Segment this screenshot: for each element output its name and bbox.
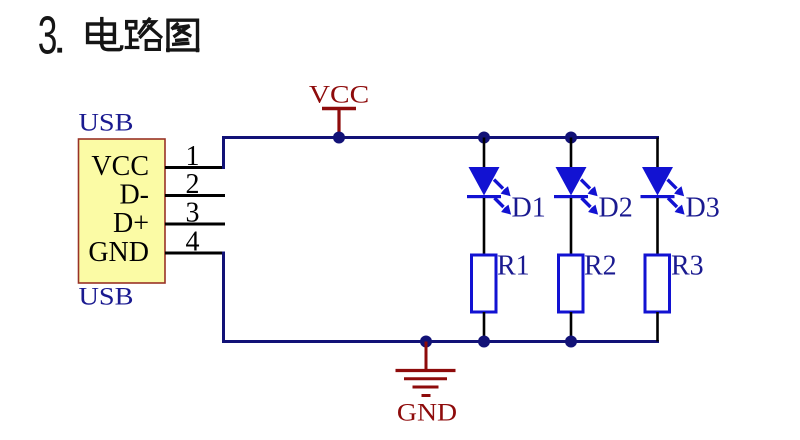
wire R3 to GND rail — [656, 312, 659, 342]
svg-text:D+: D+ — [113, 208, 149, 239]
label USB (top) — [79, 108, 134, 136]
label R1 — [497, 251, 530, 282]
label D3 — [686, 193, 720, 224]
net label VCC — [309, 80, 369, 108]
svg-text:D1: D1 — [512, 193, 546, 224]
wire D1 anode lead — [483, 138, 486, 168]
junction dot R1 bottom — [478, 336, 490, 348]
resistor R3 — [645, 255, 670, 312]
connector J1 USB body — [79, 139, 166, 283]
pin 3 lead wire — [165, 223, 225, 226]
wire pin4 drop to GND rail — [222, 252, 225, 342]
wire D3 anode lead — [656, 138, 659, 168]
ground symbol GND — [396, 342, 456, 396]
label R3 — [671, 251, 704, 282]
svg-text:D3: D3 — [686, 193, 720, 224]
svg-text:1: 1 — [186, 141, 200, 172]
svg-text:USB: USB — [79, 282, 134, 310]
wire D3 cathode to R3 — [656, 198, 659, 256]
pin 2 number — [186, 169, 200, 200]
label D1 — [512, 193, 546, 224]
svg-text:4: 4 — [186, 227, 200, 258]
svg-text:D2: D2 — [599, 193, 633, 224]
wire D2 anode lead — [570, 138, 573, 168]
wire R1 to GND rail — [483, 312, 486, 342]
svg-text:USB: USB — [79, 108, 134, 136]
resistor R1 — [472, 255, 497, 312]
resistor R2 — [559, 255, 584, 312]
LED D3 — [641, 167, 685, 215]
svg-text:R2: R2 — [584, 251, 617, 282]
hanzi 图 — [166, 20, 200, 52]
label R2 — [584, 251, 617, 282]
pin 1 lead wire — [165, 166, 225, 169]
pin name D+ — [113, 208, 149, 239]
junction dot D2 top — [565, 132, 577, 144]
svg-text:D-: D- — [119, 180, 149, 211]
wire D1 cathode to R1 — [483, 198, 486, 256]
junction dot R2 bottom — [565, 336, 577, 348]
wire GND bottom rail — [222, 340, 659, 343]
label D2 — [599, 193, 633, 224]
svg-text:VCC: VCC — [91, 151, 149, 182]
wire VCC top rail — [222, 136, 659, 139]
pin 4 lead wire — [165, 252, 225, 255]
junction dot D1 top — [478, 132, 490, 144]
pin name GND — [88, 237, 149, 268]
hanzi 路 — [125, 18, 162, 50]
LED D1 — [467, 167, 511, 215]
pin name VCC — [91, 151, 149, 182]
wire R2 to GND rail — [570, 312, 573, 342]
pin 1 number — [186, 141, 200, 172]
pin 2 lead wire — [165, 194, 225, 197]
hanzi 电 — [88, 17, 122, 50]
svg-text:3: 3 — [186, 198, 200, 229]
wire pin1 riser to VCC rail — [222, 138, 225, 170]
svg-text:R1: R1 — [497, 251, 530, 282]
svg-text:VCC: VCC — [309, 80, 369, 108]
svg-text:2: 2 — [186, 169, 200, 200]
svg-text:GND: GND — [397, 398, 457, 427]
net label GND — [397, 398, 457, 427]
svg-text:GND: GND — [88, 237, 149, 268]
junction dot GND tap — [420, 336, 432, 348]
pin 3 number — [186, 198, 200, 229]
title heading "3. 电路图" — [38, 5, 200, 65]
power symbol VCC — [322, 109, 356, 138]
svg-text:3: 3 — [38, 5, 58, 65]
wire D2 cathode to R2 — [570, 198, 573, 256]
pin 4 number — [186, 227, 200, 258]
pin name D- — [119, 180, 149, 211]
svg-text:R3: R3 — [671, 251, 704, 282]
label USB (bottom) — [79, 282, 134, 310]
LED D2 — [554, 167, 598, 215]
junction dot VCC on rail — [333, 132, 345, 144]
